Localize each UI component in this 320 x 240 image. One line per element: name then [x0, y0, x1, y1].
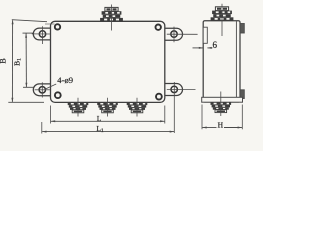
svg-text:L1: L1	[96, 124, 104, 134]
svg-text:6: 6	[212, 40, 217, 50]
side view inner edge line	[235, 21, 237, 97]
dimension L line	[51, 120, 165, 122]
wire: top-left extension line for B	[12, 20, 47, 22]
wire: L right extension	[164, 106, 166, 124]
wire: bottom-left extension line for B	[8, 101, 44, 103]
mounting lug bottom-right	[165, 84, 183, 96]
label 4-ø9 with leader	[45, 75, 73, 89]
svg-text:4-ø9: 4-ø9	[57, 75, 73, 85]
wire: L1 left extension stub	[41, 122, 43, 134]
cable gland bottom 2	[97, 98, 118, 117]
wire: B1 top tick	[23, 32, 35, 34]
dimension B line	[11, 20, 13, 102]
cable gland bottom 1	[68, 98, 89, 117]
hole top-right lug	[167, 27, 198, 43]
wire: lug plate edge near top-left corner	[45, 23, 55, 25]
cover screw bottom-right	[156, 94, 162, 100]
wire: L left extension	[50, 106, 52, 124]
cable gland top (side view)	[211, 4, 234, 36]
cover screw top-right	[156, 25, 161, 30]
mounting lug top-left	[33, 28, 51, 40]
enclosure body (front view)	[51, 21, 165, 102]
svg-text:B1: B1	[12, 58, 22, 66]
side view body	[203, 21, 240, 102]
cover screw bottom-left	[55, 92, 61, 98]
hole bottom-right lug	[167, 82, 196, 133]
mounting lug bottom-left	[33, 84, 51, 96]
dimension L1 line	[42, 131, 174, 133]
side view hinge tab top	[240, 24, 244, 34]
wire: B1 bottom tick	[23, 86, 35, 88]
cable gland bottom (side view)	[211, 92, 232, 117]
svg-text:L: L	[97, 114, 102, 123]
mounting lug top-right	[165, 28, 183, 40]
hole bottom-left lug	[35, 82, 50, 97]
cable gland top (front view)	[100, 5, 123, 31]
cable gland bottom 3	[127, 98, 148, 117]
side view cover tab (left)	[203, 27, 207, 43]
wire: H left extension	[201, 105, 203, 130]
svg-text:B: B	[0, 58, 8, 63]
side view base flange	[202, 97, 243, 102]
svg-text:H: H	[218, 120, 224, 129]
cover screw top-left	[55, 24, 60, 29]
hole top-left lug (4-ø9)	[32, 26, 50, 44]
dimension 6 (cover thickness)	[193, 47, 213, 49]
side view hinge tab bottom	[240, 90, 244, 99]
dimension B1 line	[25, 33, 27, 87]
dimension H line	[202, 127, 242, 129]
wire: H right extension	[241, 105, 243, 130]
